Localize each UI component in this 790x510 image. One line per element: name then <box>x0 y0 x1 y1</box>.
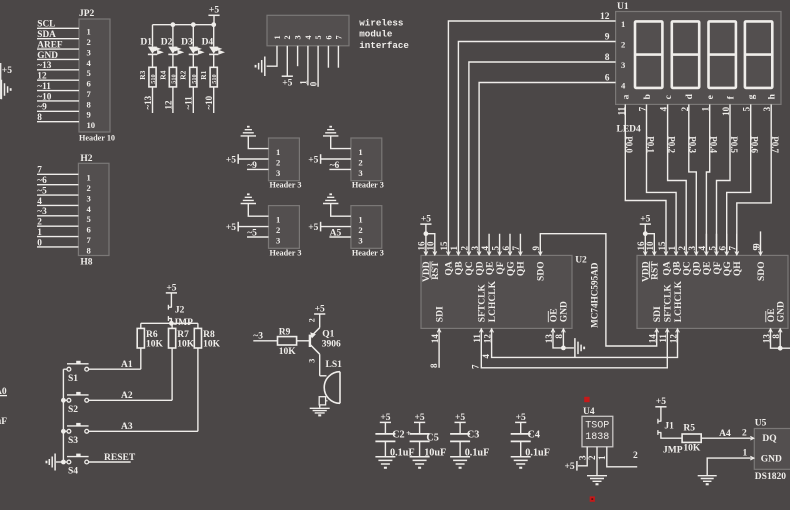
svg-text:g: g <box>747 94 757 99</box>
svg-text:3: 3 <box>577 455 587 460</box>
wire stub wireless pin7 <box>337 46 339 68</box>
connector JP5 (Header 3) <box>269 206 300 249</box>
svg-text:~9: ~9 <box>37 103 47 113</box>
svg-text:2: 2 <box>307 318 316 322</box>
svg-text:QF: QF <box>713 261 723 274</box>
svg-text:module: module <box>359 29 393 40</box>
switch S2 (pushbutton) <box>67 398 71 402</box>
svg-text:LS1: LS1 <box>326 360 343 370</box>
svg-text:~5: ~5 <box>37 186 47 196</box>
svg-text:SDI: SDI <box>653 306 663 322</box>
svg-text:8: 8 <box>37 113 42 123</box>
svg-text:LCHCLK: LCHCLK <box>488 280 498 322</box>
svg-text:~13: ~13 <box>143 95 153 109</box>
svg-text:+5: +5 <box>380 413 390 423</box>
wire U5 GND pin1 to ground <box>707 458 754 475</box>
LED D3 <box>192 25 194 47</box>
svg-text:2: 2 <box>587 455 597 460</box>
svg-text:~9: ~9 <box>247 161 257 171</box>
svg-text:5: 5 <box>314 35 323 39</box>
jumper J1 JMP <box>658 420 662 422</box>
svg-text:A1: A1 <box>121 360 133 370</box>
svg-text:+5: +5 <box>315 304 325 314</box>
wire net ~3 to H2 pin 5 <box>37 215 78 217</box>
ground (U2, pointing right) <box>575 338 581 358</box>
wire segment d (pin 2, net P0.3) to U3 QD <box>689 104 697 254</box>
resistor R5 10K <box>682 434 701 442</box>
svg-text:2: 2 <box>37 218 42 228</box>
wire net A5 to JP6 pin3 <box>329 236 351 238</box>
svg-text:+5: +5 <box>166 283 176 293</box>
svg-text:2: 2 <box>87 37 91 47</box>
svg-text:1: 1 <box>273 35 282 39</box>
resistor R4 510 <box>172 54 174 67</box>
svg-text:12: 12 <box>600 12 610 22</box>
svg-text:interface: interface <box>359 40 409 51</box>
svg-text:Header 3: Header 3 <box>270 248 302 257</box>
svg-text:5: 5 <box>742 106 752 111</box>
svg-text:b: b <box>643 94 653 99</box>
ground (U4) <box>587 476 607 482</box>
svg-text:QA: QA <box>445 261 455 275</box>
svg-text:RST: RST <box>431 261 441 280</box>
wire net 12 display pin 1 to U2 QA <box>448 21 615 254</box>
svg-text:9: 9 <box>87 110 91 120</box>
wire R9 to Q1 base <box>297 340 310 342</box>
wire net ~13 to JP2 pin 5 <box>37 69 79 71</box>
svg-text:6: 6 <box>324 35 333 39</box>
svg-text:4: 4 <box>481 354 491 359</box>
svg-text:uF: uF <box>0 417 7 427</box>
power +5 (C5) <box>414 421 425 423</box>
wire JP4 pin1 to ground <box>331 136 351 149</box>
svg-text:+5: +5 <box>565 462 575 472</box>
svg-text:R3: R3 <box>138 70 147 79</box>
capacitor C2 0.1uF <box>384 422 386 433</box>
svg-text:SFTCLK: SFTCLK <box>478 284 488 323</box>
wire net A1 from S1 <box>89 368 141 370</box>
svg-text:h: h <box>768 93 778 99</box>
temperature sensor U5 DS1820 <box>754 429 790 470</box>
wire U2 SDI net 8 <box>438 328 440 367</box>
power +5 (LED rail) <box>208 14 219 16</box>
svg-text:1: 1 <box>298 80 308 85</box>
svg-text:RESET: RESET <box>104 453 136 463</box>
wire segment a (pin 11, net P0.0) to U3 QA <box>625 104 666 254</box>
svg-text:JMP: JMP <box>663 445 683 455</box>
svg-text:QH: QH <box>517 261 527 276</box>
svg-text:QD: QD <box>693 261 703 275</box>
svg-text:C3: C3 <box>467 429 479 440</box>
svg-text:7: 7 <box>334 35 343 39</box>
wire J2 to resistor bus <box>170 319 172 324</box>
svg-text:0: 0 <box>309 81 319 86</box>
power +5 (J2 rail) <box>166 292 177 294</box>
wire net A2 from S2 <box>89 399 173 401</box>
wire net 4 to H2 pin 4 <box>37 204 78 206</box>
svg-text:5: 5 <box>87 68 91 78</box>
junction rail at S3 <box>61 429 66 434</box>
wire wireless pin4 net 1 <box>307 46 309 86</box>
svg-text:7: 7 <box>638 106 648 111</box>
power +5 (JP6 pin2) <box>320 222 322 232</box>
connector JP2 Header 10 <box>79 19 110 132</box>
svg-text:10K: 10K <box>146 339 164 349</box>
svg-text:510: 510 <box>211 74 218 83</box>
junction U3 GND <box>778 346 783 351</box>
LED D2 <box>172 25 174 47</box>
junction J2/resistor bus <box>169 321 174 326</box>
svg-text:11: 11 <box>616 106 626 115</box>
svg-text:~13: ~13 <box>37 61 51 71</box>
shift register U3 MC74HC595AD <box>637 255 788 328</box>
svg-text:e: e <box>706 95 716 99</box>
svg-text:3: 3 <box>358 235 362 245</box>
svg-text:QG: QG <box>506 261 516 276</box>
svg-text:~3: ~3 <box>37 207 47 217</box>
svg-text:3: 3 <box>762 106 772 111</box>
svg-text:2: 2 <box>742 429 747 439</box>
svg-text:TSOP: TSOP <box>585 420 609 431</box>
svg-text:3: 3 <box>621 60 625 70</box>
svg-text:A2: A2 <box>121 391 133 401</box>
power +5 (wireless pin2, pointing down) <box>282 75 293 77</box>
svg-text:D3: D3 <box>181 38 193 48</box>
wire J1 to R5 <box>661 433 682 439</box>
svg-text:d: d <box>685 93 695 99</box>
ground (C2) <box>375 457 395 464</box>
wire Q1 collector to LS1 <box>319 354 321 376</box>
LED D4 <box>213 25 215 47</box>
wire net ~11 to JP2 pin 7 <box>37 90 79 92</box>
svg-text:SDI: SDI <box>435 306 445 322</box>
wire net ~3 to R9 <box>253 340 277 342</box>
shift register U2 MC74HC595AD <box>421 255 572 328</box>
wire net 1 to H2 pin 7 <box>37 236 78 238</box>
svg-text:QB: QB <box>455 261 465 275</box>
svg-text:+5: +5 <box>282 79 292 89</box>
wire JP5 pin1 to ground <box>248 204 268 217</box>
svg-text:A5: A5 <box>330 229 342 239</box>
svg-text:D1: D1 <box>140 38 152 48</box>
svg-text:7: 7 <box>87 235 92 245</box>
ground (C5) <box>410 457 430 464</box>
ground (U5) <box>698 476 717 482</box>
svg-text:3: 3 <box>358 168 362 178</box>
svg-text:JP2: JP2 <box>79 9 95 19</box>
svg-text:S1: S1 <box>68 374 78 384</box>
svg-text:c: c <box>664 95 674 99</box>
svg-text:~10: ~10 <box>204 95 214 109</box>
svg-text:1: 1 <box>87 27 91 37</box>
svg-text:QD: QD <box>475 261 485 275</box>
connector JP6 (Header 3) <box>351 206 382 249</box>
svg-text:+5: +5 <box>226 155 236 165</box>
svg-text:J1: J1 <box>664 422 674 432</box>
svg-text:6: 6 <box>87 225 92 235</box>
svg-text:H2: H2 <box>80 154 92 164</box>
wire net 6 display pin 4 to U2 QD <box>479 83 615 255</box>
svg-text:a: a <box>622 94 632 99</box>
svg-text:1: 1 <box>358 147 362 157</box>
svg-text:P0.6: P0.6 <box>750 136 760 153</box>
svg-text:~5: ~5 <box>247 229 257 239</box>
ground (JP5 pin1, pointing up) <box>241 197 256 203</box>
svg-text:1: 1 <box>276 147 280 157</box>
svg-text:1: 1 <box>358 215 362 225</box>
svg-text:2: 2 <box>358 157 362 167</box>
svg-text:3: 3 <box>276 168 280 178</box>
svg-text:U5: U5 <box>755 419 767 429</box>
wire net 4 LCHCLK (U2 pin12 to U3 pin12) <box>492 328 678 357</box>
svg-text:+5: +5 <box>415 413 425 423</box>
svg-text:P0.0: P0.0 <box>624 136 634 153</box>
svg-text:510: 510 <box>191 74 198 83</box>
wire net 12 <box>172 87 174 113</box>
svg-text:1: 1 <box>743 449 748 459</box>
svg-text:9: 9 <box>605 33 610 43</box>
svg-text:7: 7 <box>37 166 42 176</box>
svg-text:OE: OE <box>767 308 777 322</box>
wire JP6 pin1 to ground <box>331 204 351 217</box>
ground (S4, pointing left) <box>56 461 63 463</box>
ground (LS1) <box>310 408 330 413</box>
switch S3 (pushbutton) <box>67 429 71 433</box>
svg-text:2: 2 <box>276 157 280 167</box>
svg-text:U2: U2 <box>575 256 587 266</box>
svg-text:MC74HC595AD: MC74HC595AD <box>590 262 600 328</box>
svg-text:2: 2 <box>680 106 690 111</box>
wire segment h (pin 3, net P0.7) to U3 QH <box>737 104 771 254</box>
svg-text:4: 4 <box>621 80 626 90</box>
power +5 (J1) <box>655 406 666 408</box>
svg-text:D2: D2 <box>161 38 173 48</box>
wire net ~10 <box>213 87 215 113</box>
power +5 (U3 VDD/RST) <box>640 223 651 225</box>
svg-text:~6: ~6 <box>37 176 47 186</box>
wire Q1 emitter to +5 <box>319 314 321 328</box>
wire net SCL to JP2 pin 1 <box>37 27 79 29</box>
wire net ~6 to H2 pin 2 <box>37 184 78 186</box>
connector H2 (H8 header) <box>78 163 109 255</box>
svg-text:P0.7: P0.7 <box>770 136 780 153</box>
connector wireless module (7-pin) <box>267 15 349 46</box>
svg-text:7: 7 <box>87 89 92 99</box>
svg-text:+: + <box>406 429 411 438</box>
power +5 (Q1) <box>314 313 325 315</box>
svg-text:P0.4: P0.4 <box>709 136 719 153</box>
svg-text:8: 8 <box>429 363 439 368</box>
wire net AREF to JP2 pin 3 <box>37 48 79 50</box>
wire net 8 to JP2 pin 10 <box>37 121 79 123</box>
wire wireless pin2 to +5 <box>286 46 288 76</box>
wire U2 OE/GND to ground <box>553 328 574 348</box>
power +5 edge fragment (cropped) <box>0 63 2 99</box>
svg-text:R4: R4 <box>158 70 167 79</box>
switch S1 (pushbutton) <box>67 367 71 371</box>
wire U4 pin2 to ground <box>596 447 598 475</box>
svg-text:+5: +5 <box>640 215 650 225</box>
svg-text:AREF: AREF <box>37 40 63 50</box>
svg-text:~10: ~10 <box>37 92 51 102</box>
wire net ~13 <box>152 87 154 113</box>
wire stubs U3 QE-QH unconnected <box>706 234 736 255</box>
svg-text:GND: GND <box>37 51 58 61</box>
svg-text:4: 4 <box>87 204 92 214</box>
ground (C4) <box>511 457 531 464</box>
svg-text:8: 8 <box>87 245 92 255</box>
svg-text:10K: 10K <box>279 347 297 357</box>
svg-text:~11: ~11 <box>184 96 194 110</box>
svg-text:R1: R1 <box>199 70 208 79</box>
svg-text:GND: GND <box>761 455 782 465</box>
svg-text:9: 9 <box>751 243 761 248</box>
wire net 12 to JP2 pin 6 <box>37 79 79 81</box>
svg-text:10: 10 <box>87 120 96 130</box>
connector JP3 (Header 3) <box>269 138 300 181</box>
svg-text:8: 8 <box>87 99 92 109</box>
svg-text:C4: C4 <box>528 429 540 440</box>
svg-text:4: 4 <box>659 106 669 111</box>
ground (JP4 pin1, pointing up) <box>323 130 338 136</box>
wire U2 SDO to U3 SDI (net) <box>540 234 656 346</box>
ground (C3) <box>450 457 470 464</box>
svg-text:+5: +5 <box>421 215 431 225</box>
wire stub wireless pin3 <box>297 46 299 66</box>
wire JP5 pin2 to +5 <box>238 226 268 228</box>
svg-text:10K: 10K <box>683 443 701 453</box>
svg-text:SFTCLK: SFTCLK <box>664 284 674 323</box>
svg-text:+5: +5 <box>308 223 318 233</box>
svg-text:3: 3 <box>307 359 316 363</box>
svg-text:GND: GND <box>560 301 570 322</box>
svg-text:SDO: SDO <box>757 261 767 281</box>
svg-text:12: 12 <box>163 100 173 110</box>
svg-text:0: 0 <box>37 238 42 248</box>
svg-text:12: 12 <box>37 72 47 82</box>
svg-text:+5: +5 <box>308 155 318 165</box>
svg-text:8: 8 <box>605 53 610 63</box>
svg-text:QF: QF <box>496 261 506 274</box>
svg-text:2: 2 <box>87 183 91 193</box>
wire net 7 to H2 pin 1 <box>37 173 78 175</box>
resistor R8 10K <box>197 323 199 328</box>
svg-text:4: 4 <box>37 197 42 207</box>
wire net ~9 to JP3 pin3 <box>247 168 269 170</box>
wire U4 pin3 to +5 <box>578 447 587 466</box>
svg-text:S3: S3 <box>68 436 78 446</box>
svg-text:DS1820: DS1820 <box>755 472 786 482</box>
svg-text:P0.1: P0.1 <box>645 136 655 153</box>
svg-text:3: 3 <box>294 35 303 39</box>
svg-text:1: 1 <box>597 455 607 460</box>
svg-text:Q1: Q1 <box>322 330 334 340</box>
svg-text:Header 10: Header 10 <box>79 134 115 143</box>
wire net ~5 to JP5 pin3 <box>247 236 269 238</box>
wire stubs U2 QE-QH unconnected <box>489 234 520 255</box>
svg-text:SDO: SDO <box>537 261 547 281</box>
wire JP3 pin2 to +5 <box>238 158 268 160</box>
svg-text:LED4: LED4 <box>617 124 642 134</box>
wire U4 pin1 net 2 <box>607 447 637 467</box>
svg-text:Header 3: Header 3 <box>352 248 384 257</box>
svg-text:R5: R5 <box>683 424 695 434</box>
svg-text:+5: +5 <box>2 66 12 76</box>
svg-text:4: 4 <box>304 35 313 39</box>
svg-text:510: 510 <box>170 74 177 83</box>
svg-text:LCHCLK: LCHCLK <box>674 280 684 322</box>
svg-text:4: 4 <box>87 58 92 68</box>
svg-text:1838: 1838 <box>585 432 609 443</box>
svg-text:P0.2: P0.2 <box>666 136 676 153</box>
power +5 (C2) <box>380 421 391 423</box>
svg-text:2: 2 <box>283 35 292 39</box>
svg-text:1: 1 <box>621 19 625 29</box>
capacitor C3 0.1uF <box>459 422 461 433</box>
svg-text:H8: H8 <box>80 258 92 268</box>
svg-text:R2: R2 <box>179 70 188 79</box>
svg-text:QE: QE <box>485 261 495 275</box>
wire stub U3 SDO net 9 <box>760 231 762 254</box>
power +5 (C3) <box>455 421 466 423</box>
wire net A3 from S3 <box>89 430 198 432</box>
power +5 (JP3 pin2) <box>237 154 239 164</box>
wire net ~11 <box>192 87 194 113</box>
svg-text:J2: J2 <box>175 305 185 315</box>
resistor R9 10K <box>278 337 297 345</box>
svg-text:S4: S4 <box>68 467 78 477</box>
svg-text:2: 2 <box>276 225 280 235</box>
svg-text:R9: R9 <box>279 327 291 337</box>
svg-text:QE: QE <box>703 261 713 275</box>
wire R6 to net A1 <box>140 348 142 369</box>
svg-text:C2: C2 <box>392 429 404 440</box>
svg-text:SDA: SDA <box>37 30 56 40</box>
wire net 2 to H2 pin 6 <box>37 225 78 227</box>
wire net A4 (R5 to U5 DQ) <box>701 437 754 439</box>
svg-text:+5: +5 <box>516 413 526 423</box>
svg-text:3: 3 <box>87 193 91 203</box>
svg-text:RST: RST <box>651 261 661 280</box>
wire segment g (pin 5, net P0.6) to U3 QG <box>727 104 751 254</box>
svg-text:6: 6 <box>87 79 92 89</box>
svg-text:2: 2 <box>358 225 362 235</box>
jumper J2 JMP <box>168 306 172 308</box>
svg-text:1: 1 <box>276 215 280 225</box>
wire net 8 display pin 3 to U2 QC <box>469 62 616 254</box>
wire stub wireless pin6 <box>327 46 329 68</box>
power +5 (C4) <box>515 421 526 423</box>
wire net GND to JP2 pin 4 <box>37 58 79 60</box>
resistor R7 10K <box>171 323 173 328</box>
capacitor C5 10uF <box>419 422 421 433</box>
wire LS1 to ground <box>319 405 321 408</box>
wire segment e (pin 1, net P0.4) to U3 QE <box>706 104 709 254</box>
svg-text:S2: S2 <box>68 405 78 415</box>
svg-text:3: 3 <box>87 47 91 57</box>
svg-text:~11: ~11 <box>37 82 51 92</box>
wire net 9 display pin 2 to U2 QB <box>458 42 615 255</box>
wire net 7 SFTCLK (U2 pin11 to U3 pin11) <box>481 328 667 367</box>
error marker (red) below U4 <box>590 496 595 501</box>
wire net ~5 to H2 pin 3 <box>37 194 78 196</box>
resistor R2 510 <box>192 54 194 67</box>
svg-text:Header 3: Header 3 <box>352 181 384 190</box>
svg-text:2: 2 <box>621 39 625 49</box>
capacitor C4 0.1uF <box>520 422 522 433</box>
wire net ~9 to JP2 pin 9 <box>37 110 79 112</box>
error marker (red) above U4 <box>584 397 589 402</box>
